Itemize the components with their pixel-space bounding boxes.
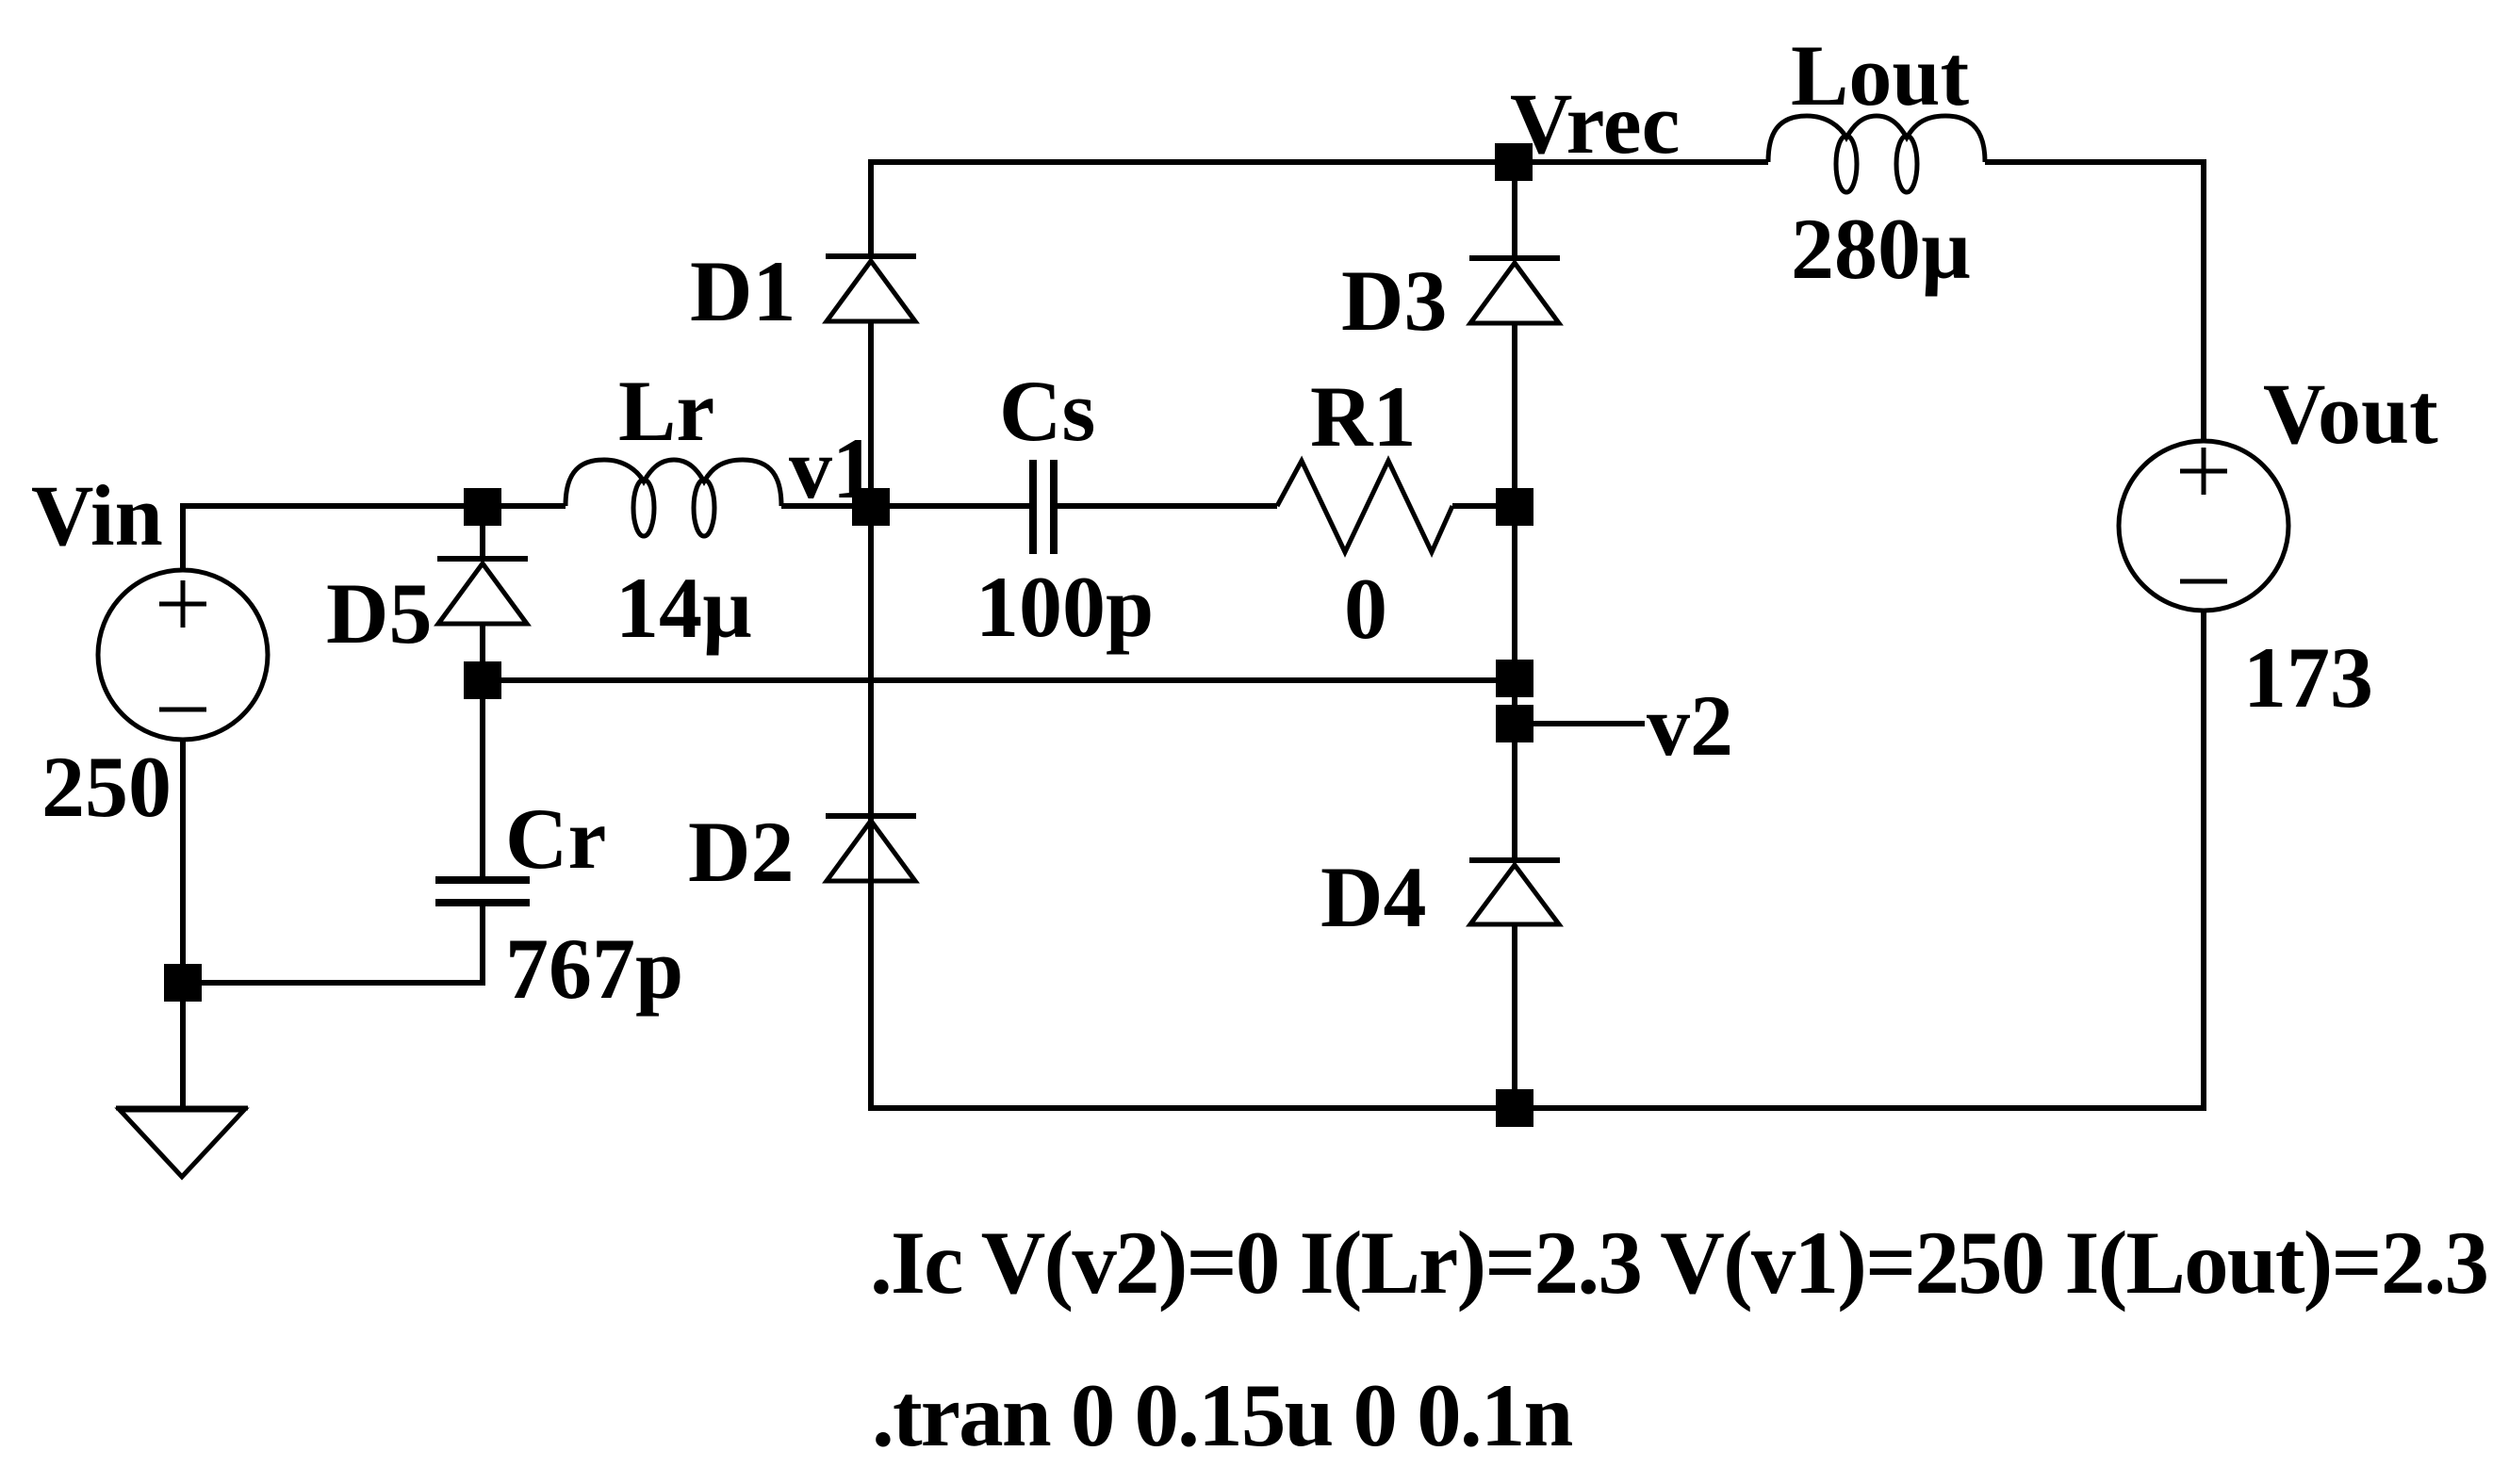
- node rail2-right: [1496, 660, 1533, 697]
- wire mid second rail: [483, 677, 1515, 683]
- wire: [1512, 323, 1517, 860]
- wire v1 to Cs: [871, 503, 1029, 509]
- wire mid row: node to Lr: [483, 503, 566, 509]
- resistor R1: [1277, 461, 1452, 552]
- wire Cs to R1: [1058, 503, 1277, 509]
- node D5-Cr junction: [464, 661, 501, 699]
- svg-text:D4: D4: [1320, 849, 1426, 945]
- svg-text:173: 173: [2243, 629, 2373, 726]
- wire right column lower, bottom rail, up bridge-left column: [871, 321, 2204, 1108]
- diode D3: [1469, 258, 1560, 323]
- svg-text:v1: v1: [789, 420, 876, 516]
- svg-text:Vin: Vin: [31, 467, 163, 563]
- wire R1 to node: [1452, 503, 1515, 509]
- svg-text:14µ: 14µ: [615, 560, 752, 656]
- svg-text:D5: D5: [326, 565, 432, 661]
- wire Vin top: [183, 506, 483, 570]
- wire Vin bottom: [180, 741, 186, 1108]
- svg-text:280µ: 280µ: [1791, 201, 1971, 297]
- capacitor Cs: [1033, 460, 1054, 554]
- node D4-bottom junction: [1496, 1089, 1533, 1127]
- node R1-D3 junction: [1496, 488, 1533, 526]
- wire D5 column top: [480, 506, 485, 559]
- svg-text:D3: D3: [1341, 253, 1447, 349]
- svg-text:v2: v2: [1647, 677, 1733, 774]
- capacitor Cr: [435, 880, 530, 903]
- svg-text:Cr: Cr: [505, 791, 606, 887]
- svg-text:.tran 0 0.15u 0 0.1n: .tran 0 0.15u 0 0.1n: [872, 1365, 1573, 1465]
- svg-text:100p: 100p: [976, 559, 1154, 655]
- svg-text:250: 250: [41, 739, 172, 835]
- node Vin-bottom junction: [164, 964, 202, 1002]
- wire bridge-right column: [1512, 162, 1517, 258]
- svg-text:R1: R1: [1310, 368, 1416, 465]
- voltage source Vout: [2119, 441, 2288, 611]
- svg-text:Vrec: Vrec: [1510, 75, 1680, 171]
- svg-text:D2: D2: [688, 804, 794, 900]
- wire Cr bottom return: [183, 906, 483, 983]
- inductor Lr: [566, 460, 781, 536]
- wire Lr to v1: [781, 503, 871, 509]
- svg-text:.Ic V(v2)=0 I(Lr)=2.3 V(v1)=25: .Ic V(v2)=0 I(Lr)=2.3 V(v1)=250 I(Lout)=…: [870, 1213, 2487, 1313]
- node Vin-Lr junction: [464, 488, 501, 526]
- node v2: [1496, 705, 1533, 742]
- wire v2 stub: [1515, 721, 1645, 726]
- node v1: [852, 488, 890, 526]
- ground: [116, 1108, 248, 1177]
- wire node to Cr: [480, 680, 485, 877]
- inductor Lout: [1768, 116, 1985, 192]
- wire top rail with bridge-left corner: [871, 162, 1768, 256]
- svg-text:Lr: Lr: [618, 363, 714, 459]
- wire D5 anode to node: [480, 624, 485, 680]
- svg-text:0: 0: [1344, 561, 1387, 657]
- wire top rail right of Lout, down right column: [1985, 162, 2204, 441]
- svg-text:767p: 767p: [505, 921, 683, 1017]
- diode D5: [437, 559, 528, 624]
- svg-text:D1: D1: [690, 243, 795, 339]
- diode D2: [826, 816, 916, 881]
- voltage source Vin: [98, 570, 268, 740]
- diode D4: [1469, 860, 1560, 924]
- wire: [1512, 924, 1517, 1108]
- node Vrec: [1495, 143, 1533, 181]
- svg-text:Lout: Lout: [1791, 27, 1970, 123]
- diode D1: [826, 256, 916, 321]
- svg-text:Vout: Vout: [2263, 366, 2438, 462]
- node junction squares: [164, 143, 1533, 1127]
- svg-text:Cs: Cs: [999, 363, 1095, 459]
